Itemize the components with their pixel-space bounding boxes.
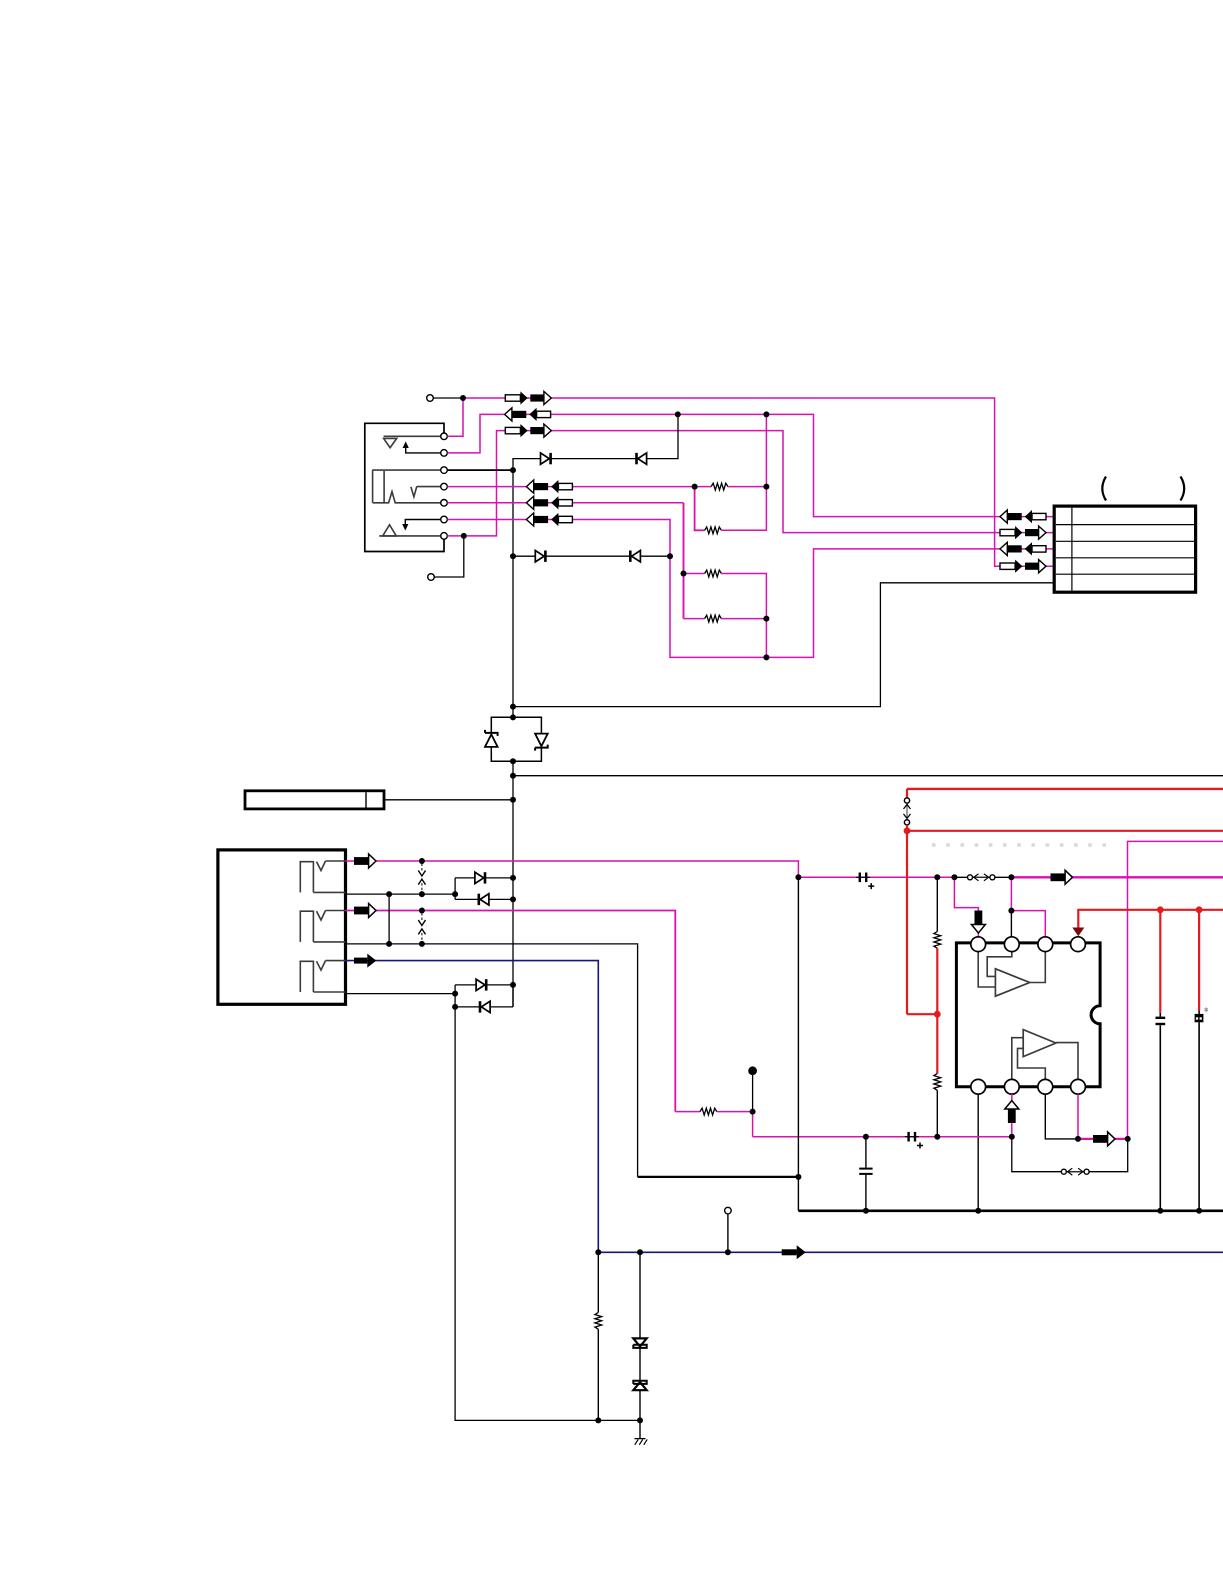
- wire pin1 to row1 node: [447, 398, 463, 436]
- red supply top rail: [907, 788, 1223, 790]
- feedback row magenta: [753, 1136, 1012, 1138]
- capacitor C104: [1156, 1017, 1166, 1019]
- CN201 parentheses label: [1102, 477, 1106, 501]
- jack J3 navy wire: [346, 961, 599, 1253]
- signal arrow out2: [1093, 1132, 1115, 1146]
- faint dotted remnant row: [932, 843, 1113, 847]
- resistor feed J2 row: [675, 1111, 700, 1113]
- U101 pin4: [1071, 937, 1086, 952]
- wire to rowC: [765, 619, 767, 658]
- arrow into pin4: [1072, 928, 1084, 937]
- jack J1 magenta wire: [346, 861, 799, 877]
- switch S103 path: [1012, 1137, 1128, 1172]
- wire bottom terminal: [434, 536, 464, 577]
- CN101 contact triangle pin7: [379, 535, 441, 537]
- long bus wire to right edge: [513, 775, 1223, 777]
- jack J3 contact wire: [346, 993, 456, 995]
- signal arrow out1: [1051, 870, 1073, 884]
- bias divider column: [936, 877, 938, 931]
- resistor R107: [700, 1108, 717, 1115]
- red link to divider: [907, 1013, 937, 1015]
- J1 return vertical: [797, 877, 799, 1211]
- diode D103: [535, 551, 544, 562]
- jack J2 contact wire: [346, 944, 638, 1177]
- op-amp U101a: [995, 969, 1029, 996]
- zener ZD101: [633, 1338, 646, 1347]
- signal arrow navy: [782, 1245, 806, 1259]
- bridge diode D106 (right, down): [535, 734, 548, 747]
- capacitor C102 (series): [905, 1132, 923, 1149]
- U101 pin2: [1004, 937, 1019, 952]
- U101a input wires: [978, 952, 995, 987]
- signal arrows rowC: [526, 513, 572, 526]
- wire terminal to node: [433, 397, 463, 399]
- fuse switch S102: [904, 798, 911, 825]
- IC U101 body: [956, 943, 1100, 1087]
- connector CN101 body (left top): [365, 423, 444, 551]
- U101 pin6: [1004, 1079, 1019, 1094]
- signal arrows rowC right: [1000, 542, 1046, 555]
- red supply drop: [906, 789, 908, 798]
- wire to IC pin2/pin3: [1010, 877, 1012, 910]
- signal arrows row1 left: [505, 391, 551, 404]
- U101 pin5: [971, 1079, 986, 1094]
- wire pin3 bus: [447, 469, 513, 471]
- output row 2 magenta: [1078, 1138, 1128, 1140]
- signal arrow J3: [354, 954, 376, 968]
- net row1 magenta wire: [463, 398, 1054, 566]
- capacitor C101 (series): [856, 873, 874, 890]
- zener branch: [639, 1252, 641, 1338]
- signal arrows row2 left: [505, 408, 551, 421]
- wire connector row5 black: [513, 583, 1054, 707]
- junction: [1010, 911, 1012, 937]
- U101 pin7: [1038, 1079, 1053, 1094]
- wire switch S101: [954, 876, 1011, 878]
- resistor R106: [934, 1074, 941, 1091]
- CN101 jack tip triangle pin1: [384, 435, 441, 437]
- diode D104: [629, 551, 632, 562]
- diode D110: [479, 1001, 482, 1012]
- CN101 V contact pin4: [411, 486, 441, 496]
- link arrows J2: [418, 913, 425, 941]
- terminal circle bottom: [428, 574, 435, 581]
- H+ coupling row magenta: [798, 876, 954, 878]
- wire J1-J2 contacts: [388, 894, 390, 944]
- signal arrows rowB: [526, 496, 572, 509]
- net row2 magenta wire: [447, 414, 1054, 516]
- bridge diode block frame: [491, 717, 541, 761]
- fuse bar component F101: [245, 791, 384, 809]
- ground bus: [798, 1210, 1223, 1213]
- capacitor C105 feed red: [1198, 910, 1200, 1011]
- CN101 switch arm pin6: [405, 520, 440, 527]
- diode D107: [475, 872, 484, 883]
- diode D101: [541, 453, 550, 464]
- jack J2 magenta wire: [346, 911, 676, 1112]
- zener ZD102: [633, 1381, 646, 1390]
- U101b output wire: [1056, 1043, 1078, 1080]
- wire to feedback row: [752, 1112, 754, 1137]
- arrow into pin1: [971, 911, 985, 934]
- jack J3 symbol: [300, 961, 313, 992]
- output row magenta thick: [1011, 876, 1223, 878]
- arrow into pin6: [1005, 1101, 1019, 1124]
- U101 pin1: [971, 937, 986, 952]
- magenta feedback rail: [1128, 841, 1223, 1139]
- resistor R101: [711, 483, 728, 490]
- CN101 switch arm pin2: [406, 446, 441, 453]
- bridge diode D105 (left, up): [485, 734, 498, 747]
- resistor R108 branch: [597, 1252, 599, 1312]
- U101 pin3: [1038, 937, 1053, 952]
- signal arrows row3 right: [1000, 526, 1046, 539]
- resistor R102: [705, 527, 722, 534]
- stub wire: [752, 1075, 754, 1112]
- U101a output wire: [1030, 952, 1046, 983]
- thick link row: [638, 1176, 799, 1178]
- wire pin7: [1045, 1094, 1078, 1139]
- red vertical feed: [906, 831, 908, 1014]
- diode pair row2 wire: [513, 555, 670, 557]
- wire rowA lower branch: [695, 487, 705, 531]
- signal arrows row3 left: [505, 424, 551, 437]
- diode D109: [476, 979, 485, 990]
- signal arrow J1: [354, 854, 376, 868]
- jack J2 symbol: [300, 911, 313, 942]
- junction dots layer: [460, 395, 466, 401]
- signal arrows row2 right: [1000, 510, 1046, 523]
- capacitor C103: [865, 1137, 867, 1168]
- op-amp U101b: [1023, 1030, 1056, 1057]
- CN201 inner divider: [1071, 508, 1073, 591]
- jack J1 contact wire: [346, 893, 456, 895]
- switch S101: [968, 874, 995, 881]
- net rowC magenta (pin6): [447, 520, 1054, 658]
- connector CN201 body (right): [1054, 506, 1195, 592]
- U101b input wires: [1012, 1038, 1023, 1080]
- net rowB magenta (pin5): [447, 502, 683, 504]
- red rail to pin4: [1078, 910, 1223, 929]
- net rowA magenta (pin4): [447, 486, 694, 488]
- red rail 2: [907, 830, 1223, 832]
- terminal circle top: [427, 395, 434, 402]
- main vertical x=513 lower: [512, 761, 514, 1007]
- wire pin8 magenta: [1077, 1094, 1079, 1139]
- signal arrow J2: [354, 904, 376, 918]
- wire pin5 to ground bus: [977, 1094, 979, 1211]
- anti-parallel diode pair upper: [454, 878, 456, 900]
- ground G101: [639, 1420, 641, 1439]
- signal arrows row1 right: [1000, 560, 1046, 573]
- wire to IC pin1: [954, 877, 978, 937]
- U101 pin8: [1071, 1079, 1086, 1094]
- main vertical bus x=513 upper: [512, 470, 514, 717]
- resistor R103: [684, 573, 705, 575]
- anti-parallel diode pair lower: [454, 985, 456, 1007]
- wire pin6 magenta: [1011, 1094, 1013, 1137]
- diode D108: [478, 894, 481, 905]
- CN201 row dividers: [1056, 524, 1194, 526]
- red segment: [936, 948, 938, 1073]
- test point terminal: [725, 1207, 732, 1214]
- CN101 jack sleeve bracket pin3-pin5: [372, 469, 440, 471]
- diode D102: [635, 453, 638, 464]
- net row3 magenta wire: [447, 431, 1054, 536]
- diode pair row1 wire: [513, 414, 678, 470]
- capacitor C104 feed red: [1159, 910, 1161, 1013]
- wire fuse to bus: [384, 799, 513, 801]
- resistor R105: [934, 932, 941, 949]
- resistor R104: [684, 618, 705, 620]
- capacitor C105 (electrolytic): [1195, 1014, 1204, 1022]
- jack J1 symbol: [300, 862, 313, 893]
- CN101 pins 1-7: [441, 433, 448, 440]
- wire J3 ground drop: [455, 1007, 640, 1421]
- jack block body (left): [218, 850, 346, 1004]
- link arrows J1: [418, 864, 425, 892]
- wire rowB vertical: [683, 503, 685, 619]
- signal arrows rowA: [526, 480, 572, 493]
- navy output row: [598, 1251, 1223, 1253]
- switch S103: [1061, 1168, 1089, 1175]
